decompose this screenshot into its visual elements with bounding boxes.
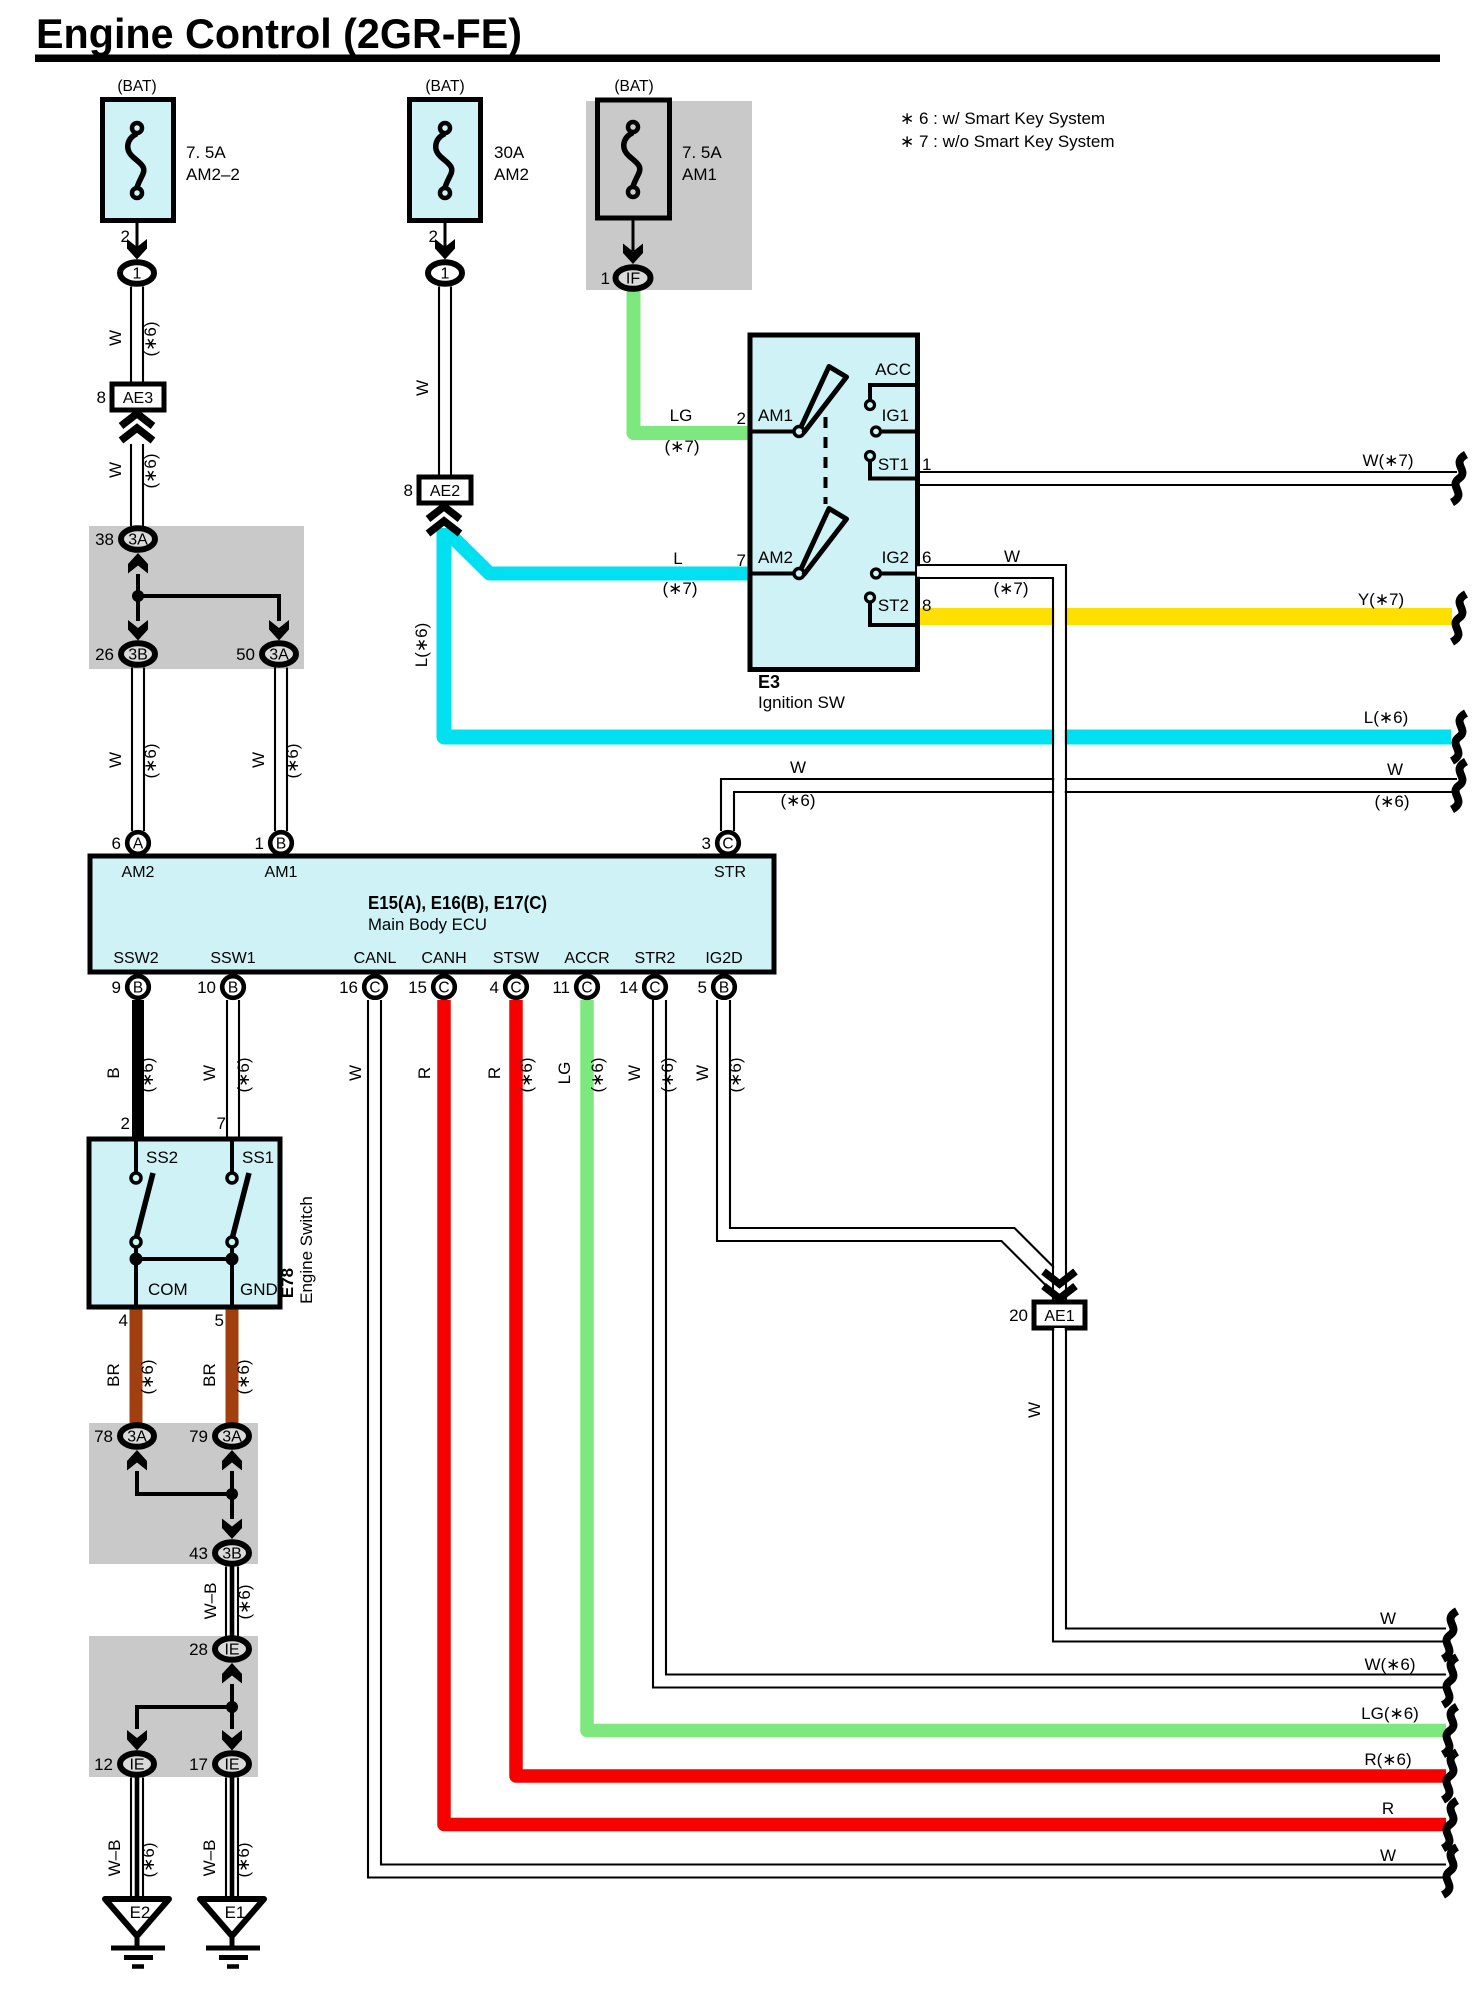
pin B 9 (127, 976, 149, 998)
svg-text:AM2: AM2 (758, 548, 793, 567)
svg-text:7: 7 (217, 1114, 226, 1133)
arrow into connector 1 (127, 239, 147, 260)
svg-text:30A: 30A (494, 143, 525, 162)
svg-text:3A: 3A (128, 532, 148, 549)
wire fuse2 pin2 (444, 220, 447, 248)
connector oval 1 (fuse2) (428, 262, 462, 284)
svg-text:38: 38 (95, 530, 114, 549)
pin C 11 (576, 976, 598, 998)
svg-text:14: 14 (619, 978, 638, 997)
svg-text:W: W (1387, 760, 1403, 779)
svg-text:L(∗6): L(∗6) (412, 623, 431, 667)
svg-text:5: 5 (215, 1311, 224, 1330)
pin A 6 (127, 832, 149, 854)
SS2 contact upper (134, 1139, 138, 1172)
svg-text:L(∗6): L(∗6) (1364, 708, 1408, 727)
wire W-B pair IE17 to E1 (225, 1778, 227, 1901)
dashed mechanical link (824, 417, 828, 504)
arrow down into IE12 (127, 1730, 147, 1751)
wire junction grayA (138, 574, 279, 621)
svg-text:B: B (276, 836, 286, 853)
fuse AM2 symbol (436, 123, 452, 198)
svg-text:11: 11 (552, 978, 570, 997)
svg-text:(∗6): (∗6) (234, 1057, 253, 1092)
wire W pair fuse1 to AE3 (130, 287, 132, 386)
wire W pair STR pin3 to right edge W(*6) (721, 779, 1457, 831)
wire W pair IG2D down and to AE1 diagonal (724, 1000, 1060, 1286)
connector oval 3A pin38 (121, 528, 155, 550)
svg-text:AE2: AE2 (430, 483, 460, 500)
svg-text:R: R (485, 1067, 504, 1079)
arrow down into 3A50 (269, 620, 289, 641)
arrow up below 3A78 (127, 1450, 147, 1471)
svg-text:(∗6): (∗6) (658, 1057, 677, 1092)
lever AM1 (801, 367, 847, 434)
wire W pair fuse2 to AE2 (438, 287, 440, 478)
wire W pair CANL to right edge (375, 1000, 1447, 1871)
svg-text:(∗7): (∗7) (662, 579, 697, 598)
svg-text:R(∗6): R(∗6) (1364, 1750, 1411, 1769)
ground E1 (200, 1899, 264, 1936)
svg-text:STR2: STR2 (635, 950, 676, 967)
svg-text:3A: 3A (222, 1429, 242, 1446)
svg-text:W: W (1004, 547, 1020, 566)
wire LG from fuse AM1 to ignition switch AM1 (634, 291, 751, 433)
wire W pair 3B26 to AM2 pin (131, 668, 133, 832)
svg-text:LG(∗6): LG(∗6) (1361, 1704, 1419, 1723)
wire junction grayB (137, 1471, 232, 1494)
engine switch E78 box (89, 1139, 280, 1307)
svg-text:E1: E1 (225, 1903, 246, 1922)
wire W pair 3A50 to AM1 pin (274, 668, 276, 832)
svg-text:(∗6): (∗6) (283, 743, 302, 778)
wire break R(*6) (1443, 1752, 1457, 1800)
title underline (35, 55, 1440, 63)
svg-text:R: R (415, 1067, 434, 1079)
svg-text:C: C (438, 980, 449, 997)
svg-text:LG: LG (555, 1062, 574, 1085)
arrow down into 3B43 (222, 1519, 242, 1540)
svg-text:B: B (228, 980, 238, 997)
svg-text:AM2: AM2 (122, 864, 155, 881)
wire LG(*6) from ACCR to right edge (587, 1000, 1446, 1731)
svg-text:W(∗7): W(∗7) (1362, 451, 1413, 470)
gray zone around fuse AM1 (586, 101, 752, 290)
svg-text:IG2: IG2 (882, 548, 909, 567)
connector oval 3B pin26 (121, 643, 155, 665)
pin C 15 (433, 976, 455, 998)
svg-text:W: W (249, 752, 268, 768)
svg-text:(∗6): (∗6) (588, 1057, 607, 1092)
svg-text:Ignition SW: Ignition SW (758, 693, 845, 712)
wire Y(*7) from ST2 to right edge (917, 608, 1452, 625)
svg-text:W(∗6): W(∗6) (1364, 1655, 1415, 1674)
svg-text:10: 10 (197, 978, 216, 997)
svg-text:9: 9 (112, 978, 121, 997)
wire W-B pair IE12 to E2 (130, 1778, 132, 1901)
svg-text:AE3: AE3 (123, 390, 153, 407)
svg-text:5: 5 (698, 978, 707, 997)
svg-text:SS1: SS1 (242, 1148, 274, 1167)
svg-text:IF: IF (626, 271, 640, 288)
fuse AM1 box (598, 100, 670, 218)
svg-text:CANH: CANH (421, 950, 466, 967)
wire break W (AE1) (1443, 1611, 1457, 1659)
svg-text:W–B: W–B (105, 1840, 124, 1877)
svg-text:20: 20 (1009, 1306, 1028, 1325)
svg-text:(BAT): (BAT) (117, 78, 156, 95)
svg-text:BR: BR (104, 1363, 123, 1387)
svg-text:W: W (1025, 1402, 1044, 1418)
svg-text:∗ 6 : w/ Smart Key System: ∗ 6 : w/ Smart Key System (900, 109, 1105, 128)
pin B 5 (713, 976, 735, 998)
arrow up below IE28 (222, 1663, 242, 1684)
IG2 contact (872, 569, 881, 578)
svg-text:A: A (133, 836, 144, 853)
wire BR from COM (130, 1307, 143, 1424)
svg-text:C: C (649, 980, 660, 997)
svg-text:26: 26 (95, 645, 114, 664)
SS1 contact lower (227, 1237, 237, 1247)
svg-text:(BAT): (BAT) (425, 78, 464, 95)
svg-text:ST1: ST1 (878, 455, 909, 474)
pin C 3 (717, 832, 739, 854)
svg-text:Engine Switch: Engine Switch (297, 1196, 316, 1304)
connector oval IE pin17 (215, 1753, 249, 1775)
svg-text:2: 2 (121, 1114, 130, 1133)
wire break W bottom (1443, 1847, 1457, 1895)
svg-text:1: 1 (133, 266, 142, 283)
svg-text:E15(A), E16(B), E17(C): E15(A), E16(B), E17(C) (368, 893, 547, 913)
svg-text:Main Body ECU: Main Body ECU (368, 915, 487, 934)
svg-text:C: C (581, 980, 592, 997)
svg-text:12: 12 (94, 1755, 113, 1774)
pin C 16 (364, 976, 386, 998)
svg-text:3B: 3B (222, 1546, 242, 1563)
wire W pair below AE1 to right edge (1060, 1328, 1447, 1635)
connector AE3 (112, 384, 164, 410)
svg-text:BR: BR (200, 1363, 219, 1387)
svg-text:79: 79 (189, 1427, 208, 1446)
svg-text:8: 8 (97, 388, 106, 407)
svg-text:(∗6): (∗6) (138, 1359, 157, 1394)
svg-text:(∗6): (∗6) (141, 453, 160, 488)
svg-text:W: W (1380, 1609, 1396, 1628)
svg-text:(∗6): (∗6) (235, 1584, 254, 1619)
svg-text:STSW: STSW (493, 950, 540, 967)
svg-text:E78: E78 (278, 1268, 297, 1298)
connector AE2 (419, 477, 471, 503)
svg-text:W: W (790, 758, 806, 777)
wire AM2 contact (750, 572, 797, 576)
svg-text:28: 28 (189, 1640, 208, 1659)
connector oval IF (616, 267, 651, 289)
pivot AM1 (794, 427, 804, 437)
svg-text:7. 5A: 7. 5A (186, 143, 226, 162)
svg-text:C: C (369, 980, 380, 997)
svg-text:COM: COM (148, 1280, 188, 1299)
double chevron below AE3 (121, 414, 153, 441)
ST2 contact (866, 593, 875, 602)
connector oval IE pin12 (120, 1753, 154, 1775)
pin B 10 (222, 976, 244, 998)
svg-text:L: L (673, 549, 682, 568)
svg-text:IG1: IG1 (882, 406, 909, 425)
wire W pair STR2 to right edge (660, 1000, 1447, 1681)
svg-text:(∗7): (∗7) (664, 437, 699, 456)
pivot AM2 (794, 569, 804, 579)
wire W pair AE3 to 3A (130, 444, 132, 526)
svg-text:W–B: W–B (201, 1583, 220, 1620)
wire break LG(*6) (1443, 1707, 1457, 1755)
svg-text:(∗6): (∗6) (141, 743, 160, 778)
svg-text:43: 43 (189, 1544, 208, 1563)
wire R(*6) from STSW to right edge (516, 1000, 1446, 1776)
arrow up below 3A38 (128, 553, 148, 574)
SS1 lever (232, 1173, 249, 1239)
svg-text:W–B: W–B (200, 1840, 219, 1877)
svg-text:15: 15 (408, 978, 427, 997)
svg-text:8: 8 (404, 481, 413, 500)
wire break W(*6) lower (1443, 1657, 1457, 1705)
connector oval 1 (fuse1) (120, 262, 154, 284)
svg-text:ST2: ST2 (878, 596, 909, 615)
svg-text:3A: 3A (127, 1429, 147, 1446)
svg-text:E3: E3 (758, 672, 780, 692)
gray junction zone A (3A/3B) (89, 526, 304, 669)
svg-text:AM2: AM2 (494, 165, 529, 184)
wire W(*7) pair from ST1 to right edge (917, 471, 1457, 473)
svg-text:R: R (1382, 1799, 1394, 1818)
arrow down into 3B26 (128, 620, 148, 641)
svg-text:E2: E2 (130, 1903, 151, 1922)
svg-text:(∗6): (∗6) (139, 1842, 158, 1877)
svg-text:B: B (104, 1067, 123, 1078)
svg-text:B: B (719, 980, 729, 997)
wire W-B pair 3B43 to IE28 (225, 1567, 227, 1637)
svg-text:W: W (346, 1065, 365, 1081)
svg-text:(∗6): (∗6) (234, 1842, 253, 1877)
ignition switch E3 box (750, 335, 918, 670)
svg-text:78: 78 (94, 1427, 113, 1446)
junction wires COM GND (134, 1247, 138, 1307)
ground E2 (105, 1899, 169, 1936)
arrow up below 3A79 (222, 1450, 242, 1471)
wire junction grayC (137, 1684, 232, 1729)
svg-text:2: 2 (737, 409, 746, 428)
svg-text:IE: IE (129, 1757, 144, 1774)
svg-text:Engine Control (2GR-FE): Engine Control (2GR-FE) (36, 10, 522, 57)
svg-text:Y(∗7): Y(∗7) (1358, 590, 1404, 609)
svg-text:1: 1 (601, 269, 610, 288)
pin C 4 (505, 976, 527, 998)
svg-text:(∗7): (∗7) (993, 579, 1028, 598)
svg-text:LG: LG (670, 406, 693, 425)
svg-text:3B: 3B (128, 647, 148, 664)
fuse AM2 box (410, 100, 481, 221)
svg-text:8: 8 (922, 596, 931, 615)
connector oval 3A pin50 (262, 643, 296, 665)
svg-text:AM1: AM1 (758, 406, 793, 425)
arrow into connector IF (623, 244, 643, 265)
svg-text:50: 50 (236, 645, 255, 664)
svg-text:6: 6 (112, 834, 121, 853)
svg-text:(∗6): (∗6) (234, 1359, 253, 1394)
wire break W(*6) upper (1452, 762, 1466, 810)
svg-text:IE: IE (224, 1642, 239, 1659)
fuse AM2-2 box (103, 100, 174, 221)
svg-text:AM1: AM1 (265, 864, 298, 881)
fuse AM1 symbol (624, 122, 640, 197)
svg-text:STR: STR (714, 864, 746, 881)
svg-text:(BAT): (BAT) (614, 78, 653, 95)
svg-text:3A: 3A (269, 647, 289, 664)
svg-text:(∗6): (∗6) (780, 791, 815, 810)
arrow down into IE17 (222, 1730, 242, 1751)
svg-text:C: C (722, 836, 733, 853)
svg-text:W: W (106, 462, 125, 478)
ST1 contact (866, 452, 875, 461)
svg-text:GND: GND (240, 1280, 278, 1299)
svg-text:SS2: SS2 (146, 1148, 178, 1167)
wire AM1 contact (750, 430, 797, 434)
svg-text:IE: IE (224, 1757, 239, 1774)
svg-text:(∗6): (∗6) (517, 1057, 536, 1092)
wire W pair SSW1 (226, 1000, 228, 1139)
wire L(*6) vertical from AE2 down and right to edge (444, 528, 1451, 737)
svg-text:W: W (1380, 1846, 1396, 1865)
SS2 lever (136, 1173, 153, 1239)
svg-text:SSW1: SSW1 (210, 950, 255, 967)
svg-text:(∗6): (∗6) (726, 1057, 745, 1092)
svg-text:3: 3 (702, 834, 711, 853)
ECU box E15 E16 E17 (90, 856, 774, 972)
wire fuse1 pin2 (136, 220, 139, 248)
svg-text:17: 17 (189, 1755, 208, 1774)
svg-text:16: 16 (339, 978, 358, 997)
svg-text:1: 1 (255, 834, 264, 853)
svg-text:W: W (200, 1065, 219, 1081)
wire R from CANH to right edge (444, 1000, 1446, 1825)
svg-text:4: 4 (119, 1311, 128, 1330)
wire break R (1443, 1801, 1457, 1849)
ACC contact bracket (870, 385, 917, 400)
svg-text:1: 1 (441, 266, 450, 283)
svg-text:(∗6): (∗6) (141, 321, 160, 356)
IG1 contact (872, 427, 881, 436)
svg-text:IG2D: IG2D (705, 950, 742, 967)
double chevron into AE1 (1044, 1272, 1076, 1299)
connector oval 3A pin79 (215, 1425, 249, 1447)
gray junction zone B (78/79/43) (89, 1423, 258, 1564)
connector AE1 (1034, 1302, 1085, 1328)
connector oval 3B pin43 (215, 1542, 249, 1564)
wire BR from GND (226, 1307, 239, 1424)
svg-text:W: W (106, 330, 125, 346)
svg-text:7. 5A: 7. 5A (682, 143, 722, 162)
wire L to ignition switch AM2 (446, 530, 751, 574)
svg-text:CANL: CANL (354, 950, 397, 967)
wire break W(*7) (1452, 455, 1466, 503)
pin C 14 (644, 976, 666, 998)
connector oval IE pin28 (215, 1638, 249, 1660)
connector oval 3A pin78 (120, 1425, 154, 1447)
wire break Y(*7) (1452, 594, 1466, 642)
wire break L(*6) (1452, 713, 1466, 761)
wire fuse3 pin1 (632, 218, 635, 251)
fuse AM2-2 symbol (128, 123, 144, 198)
lever AM2 (801, 509, 847, 576)
wire W pair from IG2 down to AE1 (917, 572, 1060, 1303)
svg-text:AM1: AM1 (682, 165, 717, 184)
svg-text:W: W (413, 380, 432, 396)
svg-text:4: 4 (490, 978, 499, 997)
svg-text:C: C (510, 980, 521, 997)
svg-text:(∗6): (∗6) (138, 1057, 157, 1092)
SS2 contact lower (131, 1237, 141, 1247)
svg-text:SSW2: SSW2 (113, 950, 158, 967)
arrow into connector 1 (435, 239, 455, 260)
pin B 1 (270, 832, 292, 854)
svg-text:∗ 7 : w/o Smart Key System: ∗ 7 : w/o Smart Key System (900, 132, 1115, 151)
svg-text:ACC: ACC (875, 360, 911, 379)
double chevron below AE2 (428, 507, 460, 534)
svg-text:W: W (625, 1065, 644, 1081)
wire B from SSW2 to engine switch (132, 1000, 144, 1139)
svg-text:W: W (693, 1065, 712, 1081)
svg-text:AM2–2: AM2–2 (186, 165, 240, 184)
SS1 contact upper (230, 1139, 234, 1172)
svg-text:W: W (106, 752, 125, 768)
svg-text:B: B (133, 980, 143, 997)
svg-text:7: 7 (737, 551, 746, 570)
svg-text:AE1: AE1 (1044, 1308, 1074, 1325)
svg-text:ACCR: ACCR (564, 950, 609, 967)
svg-text:(∗6): (∗6) (1374, 792, 1409, 811)
gray junction zone C (IE) (89, 1636, 258, 1777)
